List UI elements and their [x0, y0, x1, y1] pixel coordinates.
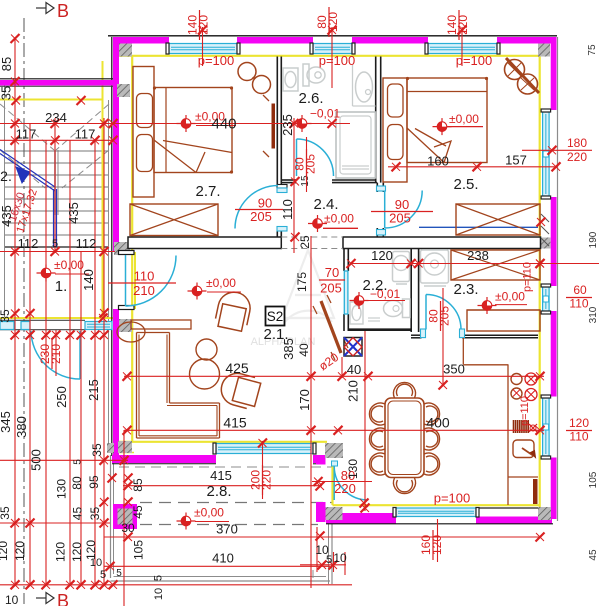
window right kitchen 120/110: [543, 398, 550, 456]
svg-text:2.4.: 2.4.: [313, 196, 338, 213]
wall 2.2/2.3 vertical: [410, 249, 412, 333]
svg-text:45: 45: [71, 507, 85, 521]
svg-text:2.5.: 2.5.: [453, 176, 478, 193]
round table entry: [117, 322, 145, 342]
old bldg south wall lines: [0, 319, 85, 321]
svg-text:35: 35: [0, 309, 12, 323]
wall 2.6/2.5 vertical: [375, 57, 377, 183]
dim line bed 2.5 y167: [388, 166, 556, 168]
svg-text:45: 45: [131, 505, 145, 519]
svg-text:220: 220: [567, 150, 587, 164]
washer 2.2: [393, 252, 410, 282]
svg-text:120: 120: [430, 535, 444, 555]
wardrobe 2.5 (X): [456, 204, 540, 235]
stair treads: [5, 150, 108, 152]
wall 2.2 west with pocket door: [343, 249, 345, 272]
chair right: [424, 428, 440, 450]
svg-text:350: 350: [443, 362, 465, 377]
ceiling dashes over stairs: [0, 104, 54, 150]
window bottom-right 160/120: [396, 508, 476, 517]
svg-text:210: 210: [49, 344, 63, 364]
wall: bottom-left exterior (magenta): [112, 455, 216, 463]
section line B-B: [23, 18, 25, 604]
dim line y537 370: [104, 536, 540, 538]
dim vertical x311: [310, 236, 312, 588]
dim vertical x124 terrace: [123, 430, 125, 606]
svg-text:120: 120: [569, 416, 589, 430]
shaft square (decor): [344, 338, 362, 357]
svg-text:120: 120: [13, 541, 27, 561]
bed 2.5 headboard: [383, 78, 407, 182]
blanket line bed 2.5: [407, 91, 487, 93]
svg-text:80: 80: [70, 476, 84, 490]
svg-text:120: 120: [197, 15, 211, 35]
dresser 2.3: [467, 310, 540, 331]
ticks various: [290, 119, 299, 128]
svg-text:2.: 2.: [0, 168, 12, 184]
small dims bottom center: [300, 564, 346, 566]
shower head marks 2.2: [368, 317, 380, 319]
svg-text:175: 175: [295, 272, 309, 292]
wall: bottom-right exterior (magenta): [326, 513, 396, 524]
dim vertical x437 160/120: [437, 519, 439, 562]
terrace dashed edges: [119, 466, 333, 468]
dim line y140: [0, 139, 113, 141]
svg-text:35: 35: [0, 506, 12, 520]
svg-text:170: 170: [297, 389, 312, 411]
window top 140/120 right: [428, 44, 497, 54]
boiler / slope symbol top right: [506, 58, 539, 93]
svg-text:±0,00: ±0,00: [54, 258, 84, 272]
svg-text:35: 35: [0, 86, 14, 100]
sink kitchen: [513, 440, 534, 458]
svg-text:2.3.: 2.3.: [453, 281, 478, 298]
svg-text:120: 120: [326, 12, 340, 32]
svg-text:220: 220: [334, 481, 356, 496]
svg-text:205: 205: [438, 306, 452, 326]
lamps 2.7: [238, 63, 256, 81]
chair left: [369, 403, 385, 425]
section mark B top: [36, 7, 46, 9]
radiator 2.7 east: [272, 104, 276, 149]
dim line y251: [0, 251, 115, 253]
svg-text:p=100: p=100: [319, 53, 356, 68]
dim line level y123: [0, 123, 350, 125]
svg-text:2.6.: 2.6.: [298, 90, 323, 107]
bed 2.7: [154, 88, 232, 173]
desk/sofa L living: [136, 333, 138, 439]
svg-text:30: 30: [121, 521, 135, 535]
svg-text:250: 250: [54, 386, 69, 408]
wardrobe 2.3 (X): [451, 250, 540, 280]
wall pier on terrace (magenta+hatch): [113, 504, 137, 529]
window right 180/220: [543, 112, 550, 196]
svg-text:500: 500: [29, 449, 44, 471]
bed 2.5: [407, 78, 487, 163]
svg-text:B: B: [57, 591, 69, 606]
svg-text:310: 310: [588, 306, 599, 323]
dim line y460: [0, 459, 128, 461]
door 2.6: [296, 139, 298, 176]
columns (hatched): [119, 44, 132, 57]
wall 2.6 south: [281, 179, 296, 181]
svg-text:5: 5: [73, 459, 84, 465]
svg-text:190: 190: [588, 231, 599, 248]
door jambs 2.7: [277, 185, 287, 189]
radiator kitchen: [514, 420, 529, 433]
svg-text:120: 120: [70, 542, 84, 562]
dim line y566 410: [104, 565, 330, 567]
wall: old building north (magenta): [0, 80, 113, 86]
svg-text:345: 345: [0, 411, 13, 433]
dim vertical x338 230/210 door: [55, 330, 57, 376]
svg-text:112: 112: [76, 236, 97, 251]
svg-text:112: 112: [18, 236, 39, 251]
svg-text:15: 15: [300, 175, 311, 187]
svg-text:435: 435: [0, 205, 14, 227]
dim line y263 120/238: [350, 263, 599, 265]
svg-text:235: 235: [280, 114, 295, 136]
svg-text:±0,00: ±0,00: [449, 112, 479, 126]
dim line y487 415: [123, 485, 322, 487]
fridge top right kitchen: [511, 439, 513, 441]
dim line y523 left: [0, 522, 110, 524]
spine wall: [128, 237, 281, 249]
svg-text:10: 10: [153, 588, 165, 600]
washbasin 2.2: [350, 302, 363, 324]
svg-text:130: 130: [55, 479, 69, 499]
armchair living top: [214, 289, 253, 332]
section mark B bottom: [36, 597, 46, 599]
svg-text:10: 10: [90, 557, 102, 569]
svg-text:110: 110: [134, 269, 155, 284]
entry door left wall 110/210: [125, 255, 127, 306]
svg-text:2.1.: 2.1.: [263, 326, 288, 343]
svg-text:75: 75: [587, 44, 598, 56]
window old bldg south: [85, 322, 112, 330]
dim line 90/205 (2.5): [371, 211, 433, 213]
svg-text:370: 370: [216, 522, 238, 537]
shower 2.6: [336, 112, 376, 178]
dim line y585: [0, 584, 352, 586]
dim line y430: [124, 429, 544, 431]
yellow facade lines: [113, 55, 540, 57]
svg-text:205: 205: [304, 154, 318, 174]
svg-text:205: 205: [389, 211, 411, 226]
door living-terrace: [333, 466, 335, 500]
stair direction arrow: [0, 150, 55, 188]
svg-text:S2: S2: [267, 309, 284, 324]
svg-text:±0,00: ±0,00: [194, 506, 224, 520]
wall: top exterior (magenta): [113, 37, 169, 44]
insulation hatch right wall: [541, 214, 549, 246]
chair right: [424, 403, 440, 425]
svg-text:440: 440: [211, 116, 236, 133]
door 2.3: [425, 295, 427, 330]
red marks at stairs big: [51, 247, 60, 256]
svg-text:60: 60: [573, 283, 587, 297]
svg-text:205: 205: [320, 281, 342, 296]
svg-text:234: 234: [45, 110, 67, 125]
wardrobe 2.7 (X): [130, 204, 218, 236]
wall 2.3 south / kitchen with door: [411, 334, 422, 336]
svg-text:5: 5: [52, 238, 58, 250]
window bottom-left terrace door 200/220: [216, 444, 313, 454]
dim verticals top windows: [202, 27, 204, 66]
svg-text:p=100: p=100: [198, 53, 235, 68]
svg-text:157: 157: [505, 153, 527, 168]
svg-text:5: 5: [326, 554, 332, 566]
svg-text:210: 210: [346, 380, 361, 402]
wall 2.7/2.6 vertical: [276, 57, 278, 189]
dim verticals left: [14, 39, 16, 585]
tall unit kitchen: [533, 479, 538, 504]
svg-text:95: 95: [87, 475, 101, 489]
svg-text:5: 5: [153, 575, 165, 581]
window top 140/120: [169, 44, 237, 54]
washbasin 2.6: [283, 68, 298, 91]
counter 2.5 north: [467, 309, 540, 311]
svg-text:220: 220: [260, 470, 274, 490]
svg-text:45: 45: [588, 549, 599, 561]
svg-text:130: 130: [346, 459, 360, 479]
svg-text:105: 105: [588, 471, 599, 488]
pocket door leaf 2.2: [344, 271, 348, 314]
svg-text:180: 180: [567, 136, 587, 150]
terrace 2.8 slab outline: [110, 455, 112, 578]
svg-text:10: 10: [333, 551, 347, 565]
svg-text:415: 415: [210, 468, 232, 483]
svg-text:410: 410: [212, 551, 234, 566]
window right 60/110: [543, 287, 550, 311]
svg-text:40: 40: [297, 343, 311, 357]
svg-text:238: 238: [467, 248, 489, 263]
svg-text:±0,00: ±0,00: [206, 276, 236, 290]
dim line 90/205 (2.7): [235, 209, 283, 211]
svg-text:85: 85: [0, 57, 14, 71]
svg-text:40: 40: [347, 362, 361, 377]
kitchen counters: [462, 338, 464, 365]
leader -0,01 2.2: [350, 300, 405, 302]
svg-text:110: 110: [569, 430, 588, 444]
svg-text:160: 160: [427, 154, 449, 169]
svg-text:205: 205: [250, 209, 272, 224]
svg-text:10: 10: [5, 593, 19, 606]
dining table: [385, 398, 424, 478]
wall: left exterior (magenta): [113, 37, 119, 252]
svg-text:117: 117: [16, 127, 37, 142]
armchair living right: [218, 370, 262, 410]
svg-text:1.: 1.: [55, 278, 68, 295]
svg-text:380: 380: [14, 416, 29, 438]
svg-text:110: 110: [569, 297, 588, 311]
svg-text:85: 85: [131, 478, 145, 492]
svg-text:2.2.: 2.2.: [362, 277, 387, 294]
wall: right exterior (magenta): [551, 44, 557, 111]
toilet 2.2: [403, 299, 411, 318]
door 2.7: [235, 186, 278, 229]
svg-text:105: 105: [132, 540, 146, 560]
left wall door jambs: [119, 251, 135, 255]
svg-text:p=100: p=100: [456, 53, 493, 68]
chair left: [369, 453, 385, 475]
S2 box: [266, 307, 285, 326]
window top 80/120: [313, 44, 352, 54]
svg-text:120: 120: [0, 541, 10, 561]
svg-text:210: 210: [133, 283, 155, 298]
dim vertical x265 200/220: [262, 441, 264, 499]
svg-text:25: 25: [298, 235, 312, 249]
burners: [511, 374, 522, 385]
chimney flue diagonal: [321, 301, 341, 353]
svg-text:120: 120: [54, 542, 68, 562]
svg-text:215: 215: [86, 379, 101, 401]
level markers: [177, 115, 196, 132]
bed 2.7 headboard: [133, 67, 154, 198]
sideboard living: [131, 320, 191, 329]
dim vertical x365 210: [364, 331, 366, 511]
wall 2.2 south: [349, 328, 411, 331]
svg-text:415: 415: [223, 415, 247, 431]
svg-text:117: 117: [75, 127, 96, 142]
svg-text:35: 35: [90, 443, 104, 457]
dryer 2.3: [421, 250, 449, 283]
door room1 old bldg: [79, 331, 81, 379]
wall 2.7 below door: [276, 231, 278, 237]
watermark logo: [282, 250, 334, 322]
wall 2.4/2.5 vertical with door: [376, 183, 378, 192]
svg-text:5: 5: [100, 569, 106, 581]
dim vertical x443 80/205: [442, 288, 444, 385]
beam line 2.3: [419, 226, 538, 228]
svg-text:110: 110: [280, 199, 295, 220]
side tables living: [196, 339, 217, 360]
chair top: [394, 382, 416, 398]
svg-text:35: 35: [88, 507, 102, 521]
svg-text:p=100: p=100: [434, 491, 471, 506]
svg-text:5: 5: [116, 568, 122, 579]
svg-text:B: B: [57, 1, 69, 21]
ticks top: [198, 26, 207, 35]
step wall left of living (magenta vertical at terrace door): [316, 456, 326, 465]
svg-text:425: 425: [225, 360, 249, 376]
svg-text:435: 435: [66, 202, 81, 224]
door 2.5: [384, 191, 386, 229]
svg-text:2.7.: 2.7.: [195, 183, 220, 200]
chair right: [424, 453, 440, 475]
chair bottom: [394, 478, 416, 494]
window old bldg south small pieces: [0, 322, 14, 330]
svg-text:p=110: p=110: [519, 396, 531, 426]
niche 2.6 top right: [352, 65, 354, 106]
svg-text:120: 120: [456, 15, 470, 35]
toilet 2.6: [303, 64, 309, 86]
old building outline: [4, 85, 6, 330]
dim line y376: [124, 375, 544, 377]
svg-text:2.8.: 2.8.: [206, 483, 231, 500]
svg-text:400: 400: [426, 415, 450, 431]
svg-text:70: 70: [325, 265, 339, 280]
svg-text:±0,00: ±0,00: [324, 212, 354, 226]
svg-text:p=110: p=110: [522, 262, 534, 292]
dim line 110/210: [108, 282, 176, 284]
svg-text:140: 140: [81, 269, 96, 291]
svg-text:120: 120: [371, 248, 393, 263]
dim vertical 2.7 right: [293, 118, 295, 253]
dim vertical x342: [341, 357, 343, 378]
chair left: [369, 428, 385, 450]
